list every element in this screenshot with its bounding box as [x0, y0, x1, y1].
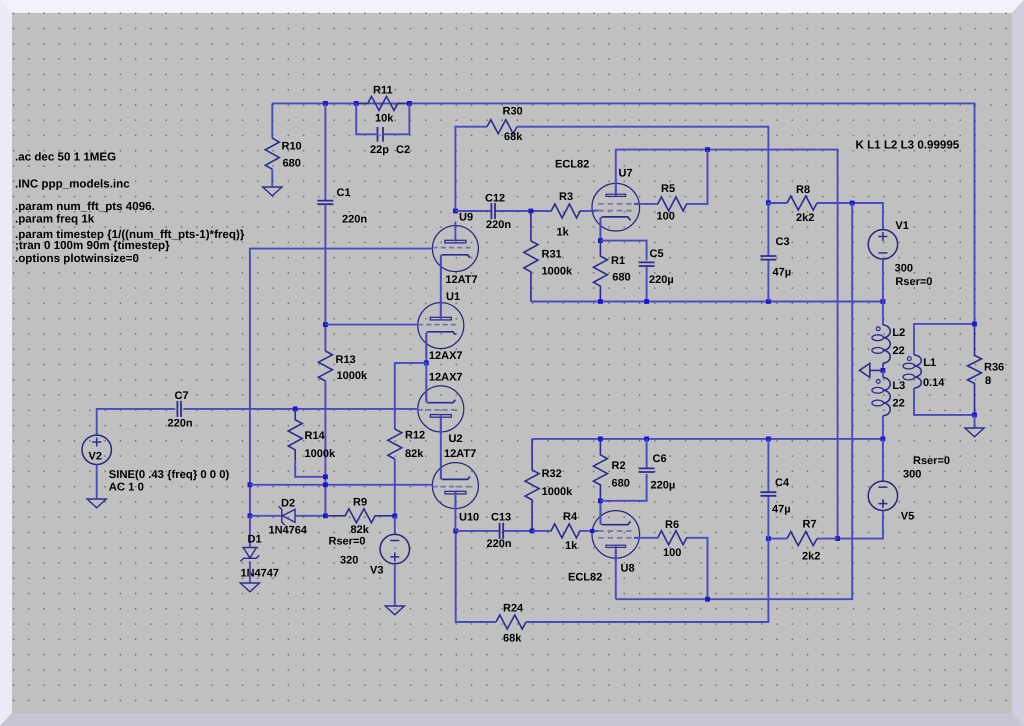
- svg-text:R10: R10: [282, 141, 302, 153]
- junction V5 at rail: [881, 437, 886, 442]
- junction U1-U2 cathodes: [424, 361, 429, 366]
- junction R11 right node: [407, 101, 412, 106]
- wire R4 row: [532, 530, 551, 532]
- junction U10 plate / C13 node: [453, 529, 458, 534]
- svg-text:;tran 0 100m 90m {timestep}: ;tran 0 100m 90m {timestep}: [15, 239, 170, 252]
- wire R24 left to U10 plate: [456, 531, 496, 622]
- wire R8 left lead: [768, 202, 787, 204]
- wire secondary bottom: [914, 388, 975, 415]
- svg-text:V3: V3: [370, 565, 383, 577]
- voltage source V3: [380, 534, 409, 563]
- wire R13 bottom chain: [324, 381, 326, 516]
- resistor R8: [787, 196, 817, 210]
- svg-text:220µ: 220µ: [649, 274, 674, 286]
- svg-text:V5: V5: [901, 511, 914, 523]
- svg-text:R14: R14: [305, 430, 326, 442]
- svg-text:8: 8: [985, 375, 991, 387]
- wire L3 bottom to rail: [882, 416, 884, 439]
- capacitor C5: [646, 266, 648, 302]
- wire R5 right vertical: [687, 150, 708, 204]
- wire V2 top to C7: [97, 409, 176, 435]
- frame left bevel: [0, 0, 12, 726]
- resistor R5: [658, 197, 688, 211]
- ground below D1: [240, 583, 259, 592]
- wire R4 to U8 g1: [580, 530, 592, 532]
- svg-text:R30: R30: [503, 106, 523, 118]
- svg-text:1000k: 1000k: [337, 370, 368, 382]
- wire C7 to U2 grid: [183, 408, 418, 410]
- svg-text:C13: C13: [491, 512, 511, 524]
- svg-text:R32: R32: [542, 468, 562, 480]
- wire V1+ down to U8 plate line: [616, 203, 852, 599]
- svg-text:.param num_fft_pts 4096.: .param num_fft_pts 4096.: [15, 200, 155, 213]
- svg-text:U1: U1: [446, 291, 460, 303]
- wire R6 right vertical: [687, 538, 708, 599]
- junction U7 cathode node: [598, 238, 603, 243]
- junction C5 at rail: [644, 299, 649, 304]
- svg-text:220n: 220n: [342, 214, 367, 226]
- junction R14 to R13 chain: [323, 474, 328, 479]
- resistor R1: [593, 241, 607, 302]
- wire cathode node to C6: [600, 474, 646, 501]
- svg-text:L3: L3: [892, 380, 905, 392]
- wire U1 grid lead: [325, 324, 418, 326]
- capacitor C13: [456, 530, 500, 532]
- junction U7 plate / R5 node: [705, 147, 710, 152]
- svg-text:C2: C2: [396, 144, 410, 156]
- wire U7 g2 to R5: [634, 203, 657, 205]
- resistor R3: [551, 204, 581, 218]
- wire rail to L2 top: [882, 302, 884, 326]
- svg-text:1000k: 1000k: [542, 486, 573, 498]
- junction transformer centre tap: [881, 368, 886, 373]
- wire CT to L3 top: [882, 370, 884, 377]
- wire cathode tail to R12: [395, 363, 427, 429]
- wire U8 g2 to R6: [634, 537, 657, 539]
- svg-text:47µ: 47µ: [773, 267, 792, 279]
- svg-text:300: 300: [895, 262, 913, 274]
- junction V1 at rail: [881, 299, 886, 304]
- junction C1 top: [323, 101, 328, 106]
- junction R14 top: [293, 407, 298, 412]
- svg-text:1k: 1k: [557, 226, 570, 238]
- junction C3 top node: [766, 200, 771, 205]
- frame bottom bevel: [0, 713, 1024, 726]
- wire lower rail: [532, 438, 883, 440]
- resistor R6: [658, 531, 688, 545]
- svg-text:R7: R7: [803, 519, 817, 531]
- junction R2 at rail: [598, 437, 603, 442]
- wire R30 left vertical to U9 plate: [455, 127, 487, 211]
- svg-text:22p: 22p: [370, 144, 389, 156]
- capacitor C12: [455, 210, 491, 212]
- junction R8/V1/down wire: [850, 201, 855, 206]
- svg-text:C5: C5: [650, 248, 664, 260]
- pentode U7 ECL82: [592, 183, 640, 231]
- wire R12 bottom lead: [394, 459, 396, 516]
- svg-text:R6: R6: [665, 519, 679, 531]
- svg-text:R3: R3: [559, 191, 573, 203]
- wire U9 grid lead: [250, 249, 433, 516]
- voltage source V5: [868, 481, 897, 510]
- capacitor C2: [378, 127, 384, 142]
- wire V5 bottom to R7 row: [838, 511, 883, 539]
- voltage source V2: [82, 435, 111, 464]
- svg-text:12AT7: 12AT7: [444, 448, 476, 460]
- svg-text:R9: R9: [353, 497, 367, 509]
- svg-text:Rser=0: Rser=0: [913, 455, 950, 467]
- resistor R30: [487, 120, 517, 134]
- svg-text:R4: R4: [563, 511, 578, 523]
- svg-text:V1: V1: [895, 220, 908, 232]
- svg-text:R1: R1: [611, 255, 625, 267]
- wire rail to V5 top: [882, 439, 884, 481]
- svg-text:47µ: 47µ: [772, 504, 791, 516]
- ground below V3: [385, 606, 404, 615]
- resistor R14: [288, 409, 302, 461]
- junction R9 left node: [323, 513, 328, 518]
- resistor R12: [388, 429, 402, 459]
- svg-text:1000k: 1000k: [542, 266, 573, 278]
- junction D2 left node: [248, 513, 253, 518]
- svg-text:R24: R24: [503, 603, 524, 615]
- svg-text:R12: R12: [405, 430, 425, 442]
- resistor R9: [325, 509, 394, 523]
- wire V1 bottom lead: [882, 259, 884, 302]
- diode D1 1N4747: [243, 548, 256, 559]
- svg-text:68k: 68k: [504, 131, 523, 143]
- svg-text:D2: D2: [281, 498, 295, 510]
- svg-text:ECL82: ECL82: [568, 572, 602, 584]
- svg-text:.INC ppp_models.inc: .INC ppp_models.inc: [15, 178, 130, 191]
- frame top bevel: [0, 0, 1024, 13]
- svg-text:1000k: 1000k: [305, 448, 336, 460]
- junction R11 left node: [354, 101, 359, 106]
- svg-text:220n: 220n: [486, 219, 511, 231]
- junction U8 cathode node: [598, 498, 603, 503]
- svg-text:D1: D1: [248, 534, 262, 546]
- wire U8 plate lead: [615, 546, 617, 600]
- junction speaker return: [972, 413, 977, 418]
- triode U2 12AX7 (flipped): [418, 386, 464, 432]
- junction U8 plate / R6 node: [705, 597, 710, 602]
- wire R8 right to V1 top: [817, 203, 883, 230]
- svg-text:82k: 82k: [351, 524, 370, 536]
- svg-text:V2: V2: [89, 451, 102, 463]
- wire R14 bottom elbow: [295, 461, 325, 477]
- resistor R11: [356, 96, 409, 110]
- svg-text:SINE(0 .43 {freq} 0 0 0): SINE(0 .43 {freq} 0 0 0): [109, 469, 230, 481]
- wire R30 right to B+ corner: [517, 127, 768, 203]
- wire C2 loop left: [356, 103, 375, 134]
- wire U10 grid lead: [250, 484, 433, 486]
- wire U1 cathode lead: [425, 334, 427, 363]
- wire cathode node to C5: [600, 241, 646, 261]
- svg-text:Rser=0: Rser=0: [329, 536, 366, 548]
- wire V2 bottom lead: [96, 465, 98, 500]
- wire U7 cathode down: [599, 221, 601, 241]
- svg-text:R11: R11: [373, 85, 393, 97]
- junction R4/R32 node: [530, 529, 535, 534]
- wire R10 bottom lead: [271, 169, 273, 187]
- wire R36 to ground: [974, 415, 976, 428]
- capacitor C1: [324, 103, 326, 200]
- inductor L3: [883, 378, 890, 416]
- capacitor C3: [767, 203, 769, 256]
- svg-text:R2: R2: [612, 460, 626, 472]
- svg-text:100: 100: [657, 211, 675, 223]
- svg-text:680: 680: [283, 158, 301, 170]
- junction R1 at rail: [598, 299, 603, 304]
- svg-text:2k2: 2k2: [802, 550, 820, 562]
- svg-text:220n: 220n: [487, 538, 512, 550]
- svg-text:R36: R36: [984, 361, 1004, 373]
- svg-text:ECL82: ECL82: [555, 159, 589, 171]
- inductor L1: [914, 355, 921, 388]
- wire lower B+ down to R24: [526, 539, 768, 622]
- svg-text:C12: C12: [485, 193, 505, 205]
- svg-text:R8: R8: [796, 184, 810, 196]
- wire U8 cathode up: [599, 501, 601, 522]
- ground below R36: [965, 428, 984, 437]
- diode D2 1N4764: [279, 506, 285, 525]
- svg-text:680: 680: [612, 272, 630, 284]
- svg-text:U10: U10: [459, 512, 479, 524]
- voltage source V1: [868, 230, 897, 259]
- svg-text:L2: L2: [892, 327, 905, 339]
- svg-text:1N4747: 1N4747: [241, 568, 280, 580]
- frame right bevel: [1012, 0, 1024, 726]
- junction U9 plate node: [453, 209, 458, 214]
- wire D2 left lead: [250, 515, 282, 517]
- svg-text:R13: R13: [336, 354, 356, 366]
- svg-text:U9: U9: [459, 212, 473, 224]
- resistor R13: [318, 351, 332, 381]
- capacitor C6: [646, 439, 648, 469]
- svg-text:680: 680: [612, 478, 630, 490]
- resistor R2: [593, 439, 607, 501]
- svg-text:12AX7: 12AX7: [429, 371, 463, 383]
- svg-text:22: 22: [893, 397, 905, 409]
- wire D1 top lead: [249, 516, 251, 548]
- wire V3 top lead: [394, 516, 396, 534]
- svg-text:R5: R5: [661, 183, 675, 195]
- capacitor C7: [177, 401, 181, 417]
- junction output node: [972, 322, 977, 327]
- svg-text:12AX7: 12AX7: [429, 350, 463, 362]
- wire C2 loop right: [391, 103, 410, 134]
- junction R9 right node: [392, 514, 397, 519]
- triode U10 12AT7 (flipped): [432, 463, 478, 509]
- resistor R24: [496, 615, 526, 629]
- svg-text:220n: 220n: [168, 418, 193, 430]
- wire D1 bottom lead: [249, 561, 251, 583]
- svg-text:.ac dec 50 1 1MEG: .ac dec 50 1 1MEG: [15, 151, 116, 164]
- resistor R36: [968, 324, 982, 415]
- resistor R7: [787, 532, 817, 546]
- svg-text:U8: U8: [621, 563, 635, 575]
- svg-text:C1: C1: [337, 187, 351, 199]
- wire R7 row: [817, 538, 838, 540]
- svg-text:10k: 10k: [375, 113, 394, 125]
- svg-text:C6: C6: [653, 453, 667, 465]
- wire U7 plate rail: [616, 150, 838, 539]
- resistor R4: [551, 524, 581, 538]
- wire R7 left lead: [768, 538, 787, 540]
- svg-text:.param freq 1k: .param freq 1k: [15, 213, 95, 226]
- ground below V2: [87, 499, 106, 508]
- net flag arrow at centre tap: [860, 363, 883, 377]
- capacitor C4: [767, 439, 769, 492]
- wire D2 right lead: [295, 515, 325, 517]
- resistor R31: [524, 211, 538, 302]
- junction U10 grid chain: [248, 482, 253, 487]
- junction U8 g1 pin: [590, 529, 594, 533]
- svg-text:0.14: 0.14: [923, 377, 945, 389]
- pentode U8 ECL82: [592, 511, 640, 559]
- junction C3 at rail: [766, 299, 771, 304]
- svg-text:C3: C3: [776, 236, 790, 248]
- svg-text:C7: C7: [175, 390, 189, 402]
- svg-text:22: 22: [893, 345, 905, 357]
- wire U9 cathode to U1 plate: [440, 256, 442, 319]
- svg-text:C4: C4: [775, 477, 790, 489]
- triode U9 12AT7: [432, 226, 478, 272]
- junction U1 grid tap: [323, 322, 328, 327]
- wire C1 to R13 chain: [324, 204, 326, 351]
- wire U2 cathode lead: [425, 363, 427, 402]
- wire L2 bottom to CT: [882, 363, 884, 370]
- svg-text:AC 1 0: AC 1 0: [109, 482, 144, 494]
- svg-text:82k: 82k: [405, 448, 424, 460]
- svg-text:U7: U7: [619, 168, 633, 180]
- svg-text:100: 100: [663, 547, 681, 559]
- svg-text:U2: U2: [449, 433, 463, 445]
- svg-text:300: 300: [903, 469, 921, 481]
- triode U1 12AX7: [418, 303, 464, 349]
- svg-text:Rser=0: Rser=0: [895, 276, 932, 288]
- svg-text:320: 320: [340, 555, 358, 567]
- junction U7 plate line at R7 row: [835, 536, 840, 541]
- ground below R10: [263, 187, 282, 196]
- wire U10 plate lead: [454, 492, 456, 531]
- junction C6 at rail: [644, 437, 649, 442]
- wire top feedback rail: [272, 103, 974, 324]
- resistor R32: [525, 439, 539, 531]
- inductor L2: [883, 325, 890, 363]
- svg-text:220µ: 220µ: [651, 479, 676, 491]
- junction C4 at rail: [766, 437, 771, 442]
- svg-text:2k2: 2k2: [796, 212, 814, 224]
- wire upper cathode rail: [531, 301, 883, 303]
- svg-text:1k: 1k: [565, 540, 578, 552]
- svg-text:1N4764: 1N4764: [269, 525, 308, 537]
- svg-text:R31: R31: [542, 249, 562, 261]
- svg-text:L1: L1: [923, 357, 936, 369]
- svg-text:68k: 68k: [503, 633, 522, 645]
- wire R10 top lead: [271, 103, 273, 138]
- svg-text:.options plotwinsize=0: .options plotwinsize=0: [15, 252, 139, 265]
- wire secondary top: [914, 324, 975, 355]
- resistor R10: [265, 138, 279, 169]
- wire V3 bottom lead: [394, 564, 396, 606]
- svg-text:K L1 L2 L3 0.99995: K L1 L2 L3 0.99995: [856, 139, 960, 152]
- junction C4 bottom node: [766, 536, 771, 541]
- wire R3 to U7 g1: [581, 210, 593, 212]
- svg-text:12AT7: 12AT7: [445, 274, 477, 286]
- junction R13 chain at U10 grid wire: [323, 482, 328, 487]
- wire R3 row: [531, 210, 551, 212]
- wire U2 plate to U10 cathode: [440, 416, 442, 480]
- junction R3/R31 node: [529, 209, 534, 214]
